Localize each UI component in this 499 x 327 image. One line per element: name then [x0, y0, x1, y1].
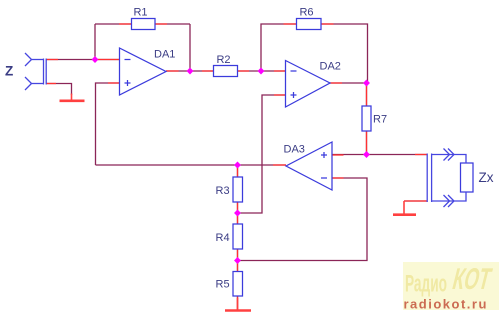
wire DA1 out through R2 to DA2 inverting: [166, 70, 286, 72]
wire input top to DA1 inverting: [46, 59, 120, 61]
pin DA3 noninverting: [332, 154, 344, 156]
pin R6 right: [321, 23, 334, 25]
pin R7 bottom: [366, 131, 368, 154]
resistor Zx: [461, 163, 474, 192]
pin output jack bottom: [404, 200, 427, 202]
pin R1 right: [155, 23, 168, 25]
resistor R6: [297, 19, 322, 30]
resistor R1: [132, 19, 156, 30]
svg-text:Радио: Радио: [405, 271, 447, 298]
junction node R7 bottom: [363, 151, 370, 158]
junction node DA2 inverting input: [258, 68, 265, 75]
wire feedback right leg: [189, 24, 191, 71]
pin jack top: [46, 59, 58, 61]
wire feedback R6 loop: [261, 24, 368, 83]
op-amp DA1: [120, 48, 167, 95]
wire DA3 inverting loop: [238, 178, 368, 261]
ground output: [393, 201, 416, 215]
ground divider: [225, 298, 251, 311]
pin jack bottom: [46, 83, 56, 85]
svg-text:radiokot.ru: radiokot.ru: [404, 297, 488, 312]
junction node R3 top: [234, 162, 241, 169]
pin R7 top: [366, 84, 368, 106]
svg-text:R5: R5: [216, 279, 230, 291]
wire output jack bottom to ground: [404, 200, 427, 202]
svg-text:DA3: DA3: [284, 144, 305, 156]
pin R3 bottom: [237, 202, 239, 213]
pin DA3 output: [273, 164, 286, 166]
svg-text:Z: Z: [5, 64, 13, 79]
svg-text:R3: R3: [216, 185, 230, 197]
pin R4 bottom: [237, 249, 239, 260]
pin R1 left: [119, 23, 132, 25]
pin R2 right: [237, 70, 249, 72]
wire divider chain R3 R4 R5: [237, 165, 239, 310]
junction node DA1 output: [187, 68, 194, 75]
pin R2 left: [202, 70, 214, 72]
pin R4 top: [237, 214, 239, 225]
junction node R3 R4: [234, 210, 241, 217]
wire DA3 noninverting to output jack: [332, 154, 427, 156]
pin DA2 output: [330, 82, 342, 84]
connector input jack Z: [25, 53, 46, 90]
svg-text:R4: R4: [216, 232, 230, 244]
pin R3 top: [237, 166, 239, 178]
wire input bottom to ground: [46, 84, 72, 96]
wire node to DA3 output: [96, 164, 287, 166]
watermark radiokot: [403, 262, 499, 312]
pin DA1 output: [166, 70, 179, 72]
wire DA1 noninverting down-around: [96, 83, 120, 165]
connector output jack Zx: [427, 149, 466, 208]
wire R7 branch: [366, 83, 368, 155]
ground input: [60, 94, 85, 101]
resistor R2: [214, 66, 238, 77]
junction node DA1 inverting input: [92, 56, 99, 63]
junction node R4 R5: [234, 257, 241, 264]
resistor R7: [362, 106, 371, 131]
resistor R3: [233, 177, 243, 202]
pin DA3 inverting: [332, 177, 344, 179]
svg-text:Zx: Zx: [479, 170, 494, 185]
pin DA2 inverting: [274, 70, 286, 72]
svg-text:DA1: DA1: [154, 49, 175, 61]
svg-text:R2: R2: [216, 54, 230, 66]
svg-text:R6: R6: [299, 7, 313, 19]
pin R5 top: [237, 261, 239, 272]
wire DA2 noninverting to divider: [238, 95, 286, 213]
pin R6 left: [284, 23, 297, 25]
svg-text:R1: R1: [133, 7, 147, 19]
pin DA1 inverting: [98, 59, 120, 61]
pin output jack top: [415, 154, 427, 156]
op-amp DA2: [286, 61, 331, 108]
pin DA1 noninverting: [108, 82, 120, 84]
op-amp DA3: [286, 142, 332, 190]
junction node DA2 output: [363, 80, 370, 87]
pin DA2 noninverting: [274, 94, 286, 96]
svg-text:DA2: DA2: [320, 61, 341, 73]
wire feedback left leg: [94, 24, 96, 60]
resistor R4: [233, 224, 243, 249]
resistor R5: [233, 272, 243, 297]
svg-text:R7: R7: [373, 114, 387, 126]
wire feedback R1 top: [95, 23, 190, 25]
pin R5 bottom: [237, 296, 239, 310]
wire DA2 out: [330, 82, 367, 84]
